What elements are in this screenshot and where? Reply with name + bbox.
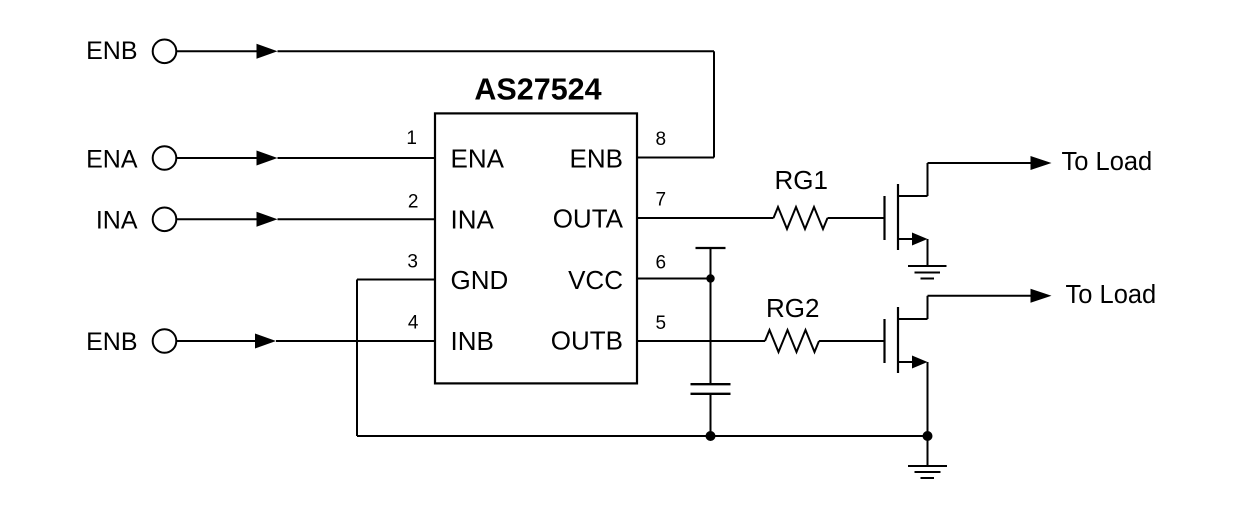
transistor Q2 source arrow <box>912 356 928 369</box>
wire: Q2 drain to load arrow <box>928 295 1033 297</box>
svg-text:4: 4 <box>408 313 419 334</box>
transistor Q2 drain contact <box>898 318 928 320</box>
svg-text:2: 2 <box>408 192 419 213</box>
wire: pin 3 GND stub going left <box>357 279 435 281</box>
wire: pin 8 horizontal to IC <box>637 157 714 159</box>
wire: ENB arrow to corner at x=714 <box>278 50 715 52</box>
wire: Q1 drain to load arrow <box>928 162 1033 164</box>
svg-text:RG2: RG2 <box>766 293 819 323</box>
wire: Q1 source down to ground <box>927 239 929 266</box>
svg-text:ENB: ENB <box>86 328 137 356</box>
svg-text:OUTA: OUTA <box>553 203 624 233</box>
wire: RG2 to Q2 gate <box>819 340 884 342</box>
wire: capacitor to ground bus <box>710 394 712 436</box>
input terminal INA circle <box>153 208 177 232</box>
arrow on ENB bottom wire <box>255 334 276 349</box>
transistor Q2 gate plate <box>883 319 885 363</box>
transistor Q1 source arrow <box>912 233 928 246</box>
capacitor C1 top plate <box>691 383 731 385</box>
arrow to load (top) <box>1031 156 1052 170</box>
input terminal ENA circle <box>153 146 177 170</box>
svg-text:OUTB: OUTB <box>551 326 623 356</box>
transistor Q1 gate plate <box>883 196 885 240</box>
wire: ENA circle to arrow <box>176 157 258 159</box>
wire: pin 5 to RG2 <box>637 340 765 342</box>
op-amp / IC U1 AS27524 box <box>435 113 637 383</box>
resistor RG1 <box>774 207 828 229</box>
svg-text:3: 3 <box>407 252 418 273</box>
wire: GND loop vertical <box>356 280 358 437</box>
transistor Q2 body <box>897 307 899 373</box>
wire: Q2 drain up <box>927 296 929 319</box>
node: VCC junction dot <box>706 274 714 282</box>
wire: RG1 to Q1 gate <box>828 217 884 219</box>
svg-text:1: 1 <box>406 128 417 149</box>
transistor Q1 drain contact <box>898 195 928 197</box>
arrow on INA wire <box>257 212 278 227</box>
wire: ENA arrow to pin 1 <box>278 157 436 159</box>
wire: bottom ground bus <box>357 435 928 437</box>
wire: VCC junction down to capacitor <box>710 279 712 385</box>
capacitor C1 bottom plate <box>691 393 731 395</box>
svg-text:ENA: ENA <box>451 143 505 173</box>
svg-text:To Load: To Load <box>1066 281 1157 309</box>
node: Q2 source / ground bus junction dot <box>923 431 933 441</box>
svg-text:INB: INB <box>451 326 494 356</box>
transistor Q1 body <box>897 184 899 250</box>
ground symbol at Q1 source <box>908 265 947 267</box>
ground symbol at bottom <box>908 465 947 467</box>
wire: ENB bottom arrow to pin 4 <box>276 340 435 342</box>
wire: junction down to ground symbol <box>927 436 929 466</box>
svg-text:ENB: ENB <box>570 143 623 173</box>
wire: ENB circle to arrow <box>176 50 258 52</box>
svg-text:To Load: To Load <box>1062 148 1153 176</box>
wire: pin 7 to RG1 <box>637 217 774 219</box>
svg-text:INA: INA <box>451 205 495 235</box>
wire: Q1 drain up <box>927 163 929 196</box>
transistor Q1 source contact <box>898 238 916 240</box>
transistor Q2 source contact <box>898 361 916 363</box>
resistor RG2 <box>765 330 819 352</box>
svg-text:GND: GND <box>451 265 509 295</box>
arrow on ENB top wire <box>257 44 278 59</box>
wire: INA arrow to pin 2 <box>278 218 436 220</box>
svg-text:5: 5 <box>656 313 667 334</box>
svg-text:6: 6 <box>656 253 667 274</box>
svg-text:ENA: ENA <box>86 146 138 174</box>
svg-text:VCC: VCC <box>568 265 623 295</box>
VCC power symbol stem <box>710 248 712 279</box>
svg-text:ENB: ENB <box>86 37 137 65</box>
wire: INA circle to arrow <box>176 218 258 220</box>
arrow to load (bottom) <box>1031 289 1052 303</box>
wire: Q2 source down to ground bus <box>927 362 929 436</box>
wire: vertical down to pin 8 <box>713 51 715 157</box>
VCC power symbol bar <box>696 247 726 249</box>
svg-text:INA: INA <box>96 207 138 235</box>
svg-text:RG1: RG1 <box>775 165 828 195</box>
input terminal ENB (bottom) circle <box>153 329 177 353</box>
node: capacitor-ground junction dot <box>706 431 716 441</box>
svg-text:8: 8 <box>656 129 667 150</box>
arrow on ENA wire <box>257 151 278 166</box>
wire: pin 6 VCC to junction <box>637 278 711 280</box>
input terminal ENB (top) circle <box>153 40 177 64</box>
svg-text:AS27524: AS27524 <box>474 73 601 107</box>
svg-text:7: 7 <box>656 190 667 211</box>
wire: ENB bottom circle to arrow <box>176 340 256 342</box>
